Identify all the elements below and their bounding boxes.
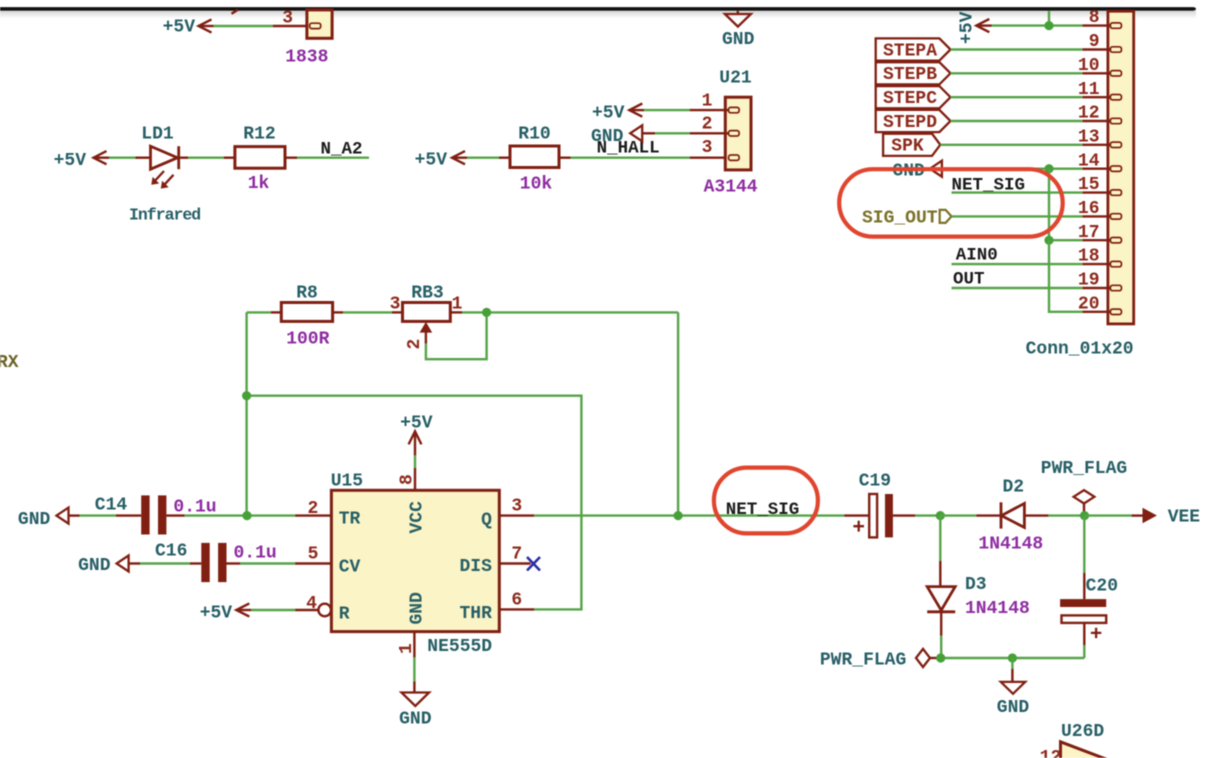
svg-text:OUT: OUT [953,270,985,290]
svg-text:3: 3 [390,295,401,315]
svg-text:U21: U21 [719,69,752,89]
svg-text:STEPB: STEPB [883,65,937,85]
svg-text:R12: R12 [243,125,275,145]
svg-text:9: 9 [1089,32,1100,52]
svg-text:CV: CV [339,558,361,578]
svg-text:VEE: VEE [1168,508,1201,528]
svg-text:Q: Q [481,511,492,531]
svg-text:A3144: A3144 [704,178,758,198]
svg-text:D2: D2 [1003,478,1025,498]
svg-text:5: 5 [308,545,319,565]
svg-text:GND: GND [399,710,432,730]
svg-text:8: 8 [398,474,418,485]
svg-text:THR: THR [459,604,492,624]
svg-text:C19: C19 [859,472,891,492]
svg-text:+5V: +5V [200,604,233,624]
svg-text:C20: C20 [1086,577,1118,597]
svg-text:2: 2 [405,339,425,350]
svg-text:+5V: +5V [54,151,87,171]
svg-text:C14: C14 [95,496,128,516]
svg-text:GND: GND [722,30,755,50]
svg-text:+5V: +5V [958,11,978,44]
svg-text:1: 1 [702,92,713,112]
svg-text:AIN0: AIN0 [956,246,998,266]
svg-text:+5V: +5V [400,414,433,434]
svg-text:PWR_FLAG: PWR_FLAG [1041,459,1127,479]
svg-text:U26D: U26D [1061,722,1104,742]
svg-text:100R: 100R [286,330,329,350]
svg-text:STEPC: STEPC [883,89,937,109]
svg-text:GND: GND [18,510,51,530]
svg-text:0.1u: 0.1u [234,544,277,564]
svg-text:7: 7 [511,545,522,565]
svg-text:U15: U15 [331,472,363,492]
svg-text:N_A2: N_A2 [321,140,363,160]
svg-text:SPK: SPK [891,137,924,157]
svg-text:1k: 1k [248,174,270,194]
svg-text:PWR_FLAG: PWR_FLAG [820,651,906,671]
svg-text:3: 3 [702,138,713,158]
svg-text:2: 2 [307,499,318,519]
svg-text:STEPA: STEPA [883,41,937,61]
svg-text:TR: TR [339,510,361,530]
svg-text:1: 1 [397,643,417,654]
svg-text:GND: GND [997,698,1030,718]
svg-text:Conn_01x20: Conn_01x20 [1026,340,1134,360]
svg-text:R10: R10 [518,125,550,145]
svg-text:D3: D3 [965,575,987,595]
svg-text:8: 8 [1089,8,1100,28]
svg-text:LD1: LD1 [141,125,174,145]
svg-text:6: 6 [511,591,522,611]
svg-text:1N4148: 1N4148 [965,599,1030,619]
svg-text:GND: GND [78,556,111,576]
svg-text:RX: RX [0,353,19,373]
svg-text:GND: GND [591,127,624,147]
svg-text:3: 3 [282,8,293,28]
svg-text:1838: 1838 [285,48,328,68]
svg-text:RB3: RB3 [411,284,443,304]
svg-text:12: 12 [1040,748,1062,758]
svg-text:R: R [339,605,350,625]
svg-text:+5V: +5V [592,104,625,124]
svg-text:3: 3 [511,497,522,517]
svg-text:GND: GND [892,162,925,182]
svg-text:VCC: VCC [408,501,428,534]
svg-text:GND: GND [408,592,428,625]
svg-text:SIG_OUT: SIG_OUT [862,208,938,228]
svg-text:2: 2 [702,115,713,135]
svg-text:R8: R8 [296,284,318,304]
svg-text:C16: C16 [155,542,187,562]
svg-text:DIS: DIS [459,557,492,577]
svg-text:4: 4 [306,594,317,614]
svg-text:+5V: +5V [415,151,448,171]
svg-text:NET_SIG: NET_SIG [726,500,800,520]
svg-text:Infrared: Infrared [129,206,200,225]
svg-text:10k: 10k [520,175,553,195]
svg-text:+5V: +5V [163,18,196,38]
svg-text:STEPD: STEPD [883,113,937,133]
svg-text:1N4148: 1N4148 [978,535,1043,555]
svg-text:NE555D: NE555D [427,637,492,657]
